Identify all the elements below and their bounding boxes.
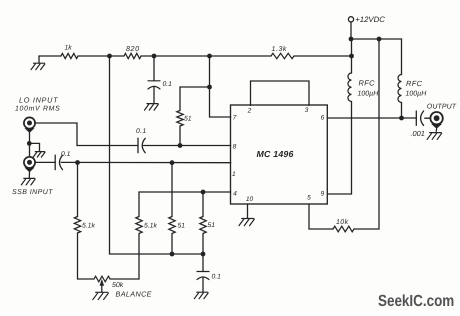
svg-text:6: 6 (321, 115, 325, 122)
svg-text:10k: 10k (336, 218, 349, 226)
svg-text:SeekIC.com: SeekIC.com (378, 291, 454, 309)
svg-text:0.1: 0.1 (212, 273, 222, 280)
svg-text:100µH: 100µH (358, 91, 380, 98)
svg-text:1k: 1k (65, 45, 73, 52)
svg-text:820: 820 (126, 44, 140, 53)
svg-text:100µH: 100µH (406, 91, 428, 98)
svg-text:50k: 50k (112, 281, 124, 289)
svg-text:2: 2 (247, 108, 252, 115)
svg-text:0.1: 0.1 (61, 151, 71, 158)
svg-text:LO INPUT: LO INPUT (19, 96, 58, 105)
svg-text:0.1: 0.1 (163, 81, 173, 88)
svg-text:10: 10 (246, 196, 254, 203)
svg-text:9: 9 (320, 191, 324, 198)
svg-text:MC 1496: MC 1496 (257, 149, 294, 159)
svg-text:51: 51 (178, 223, 186, 230)
svg-text:OUTPUT: OUTPUT (427, 103, 457, 110)
svg-text:.001: .001 (411, 129, 425, 138)
svg-text:8: 8 (233, 144, 237, 151)
svg-text:SSB INPUT: SSB INPUT (12, 189, 53, 196)
svg-text:51: 51 (184, 116, 192, 123)
svg-text:4: 4 (233, 191, 237, 198)
svg-text:1: 1 (232, 171, 236, 178)
svg-text:7: 7 (233, 115, 237, 122)
svg-text:BALANCE: BALANCE (116, 289, 152, 298)
svg-text:5.1k: 5.1k (82, 223, 95, 230)
svg-text:RFC: RFC (359, 79, 376, 88)
svg-text:5: 5 (307, 194, 311, 201)
svg-text:+12VDC: +12VDC (355, 15, 385, 24)
svg-text:1.3k: 1.3k (272, 45, 287, 53)
svg-text:100mV RMS: 100mV RMS (15, 106, 60, 113)
svg-text:3: 3 (305, 107, 309, 114)
svg-text:5.1k: 5.1k (144, 223, 157, 230)
svg-text:0.1: 0.1 (136, 128, 147, 135)
svg-text:51: 51 (208, 222, 216, 229)
svg-text:RFC: RFC (406, 79, 423, 88)
